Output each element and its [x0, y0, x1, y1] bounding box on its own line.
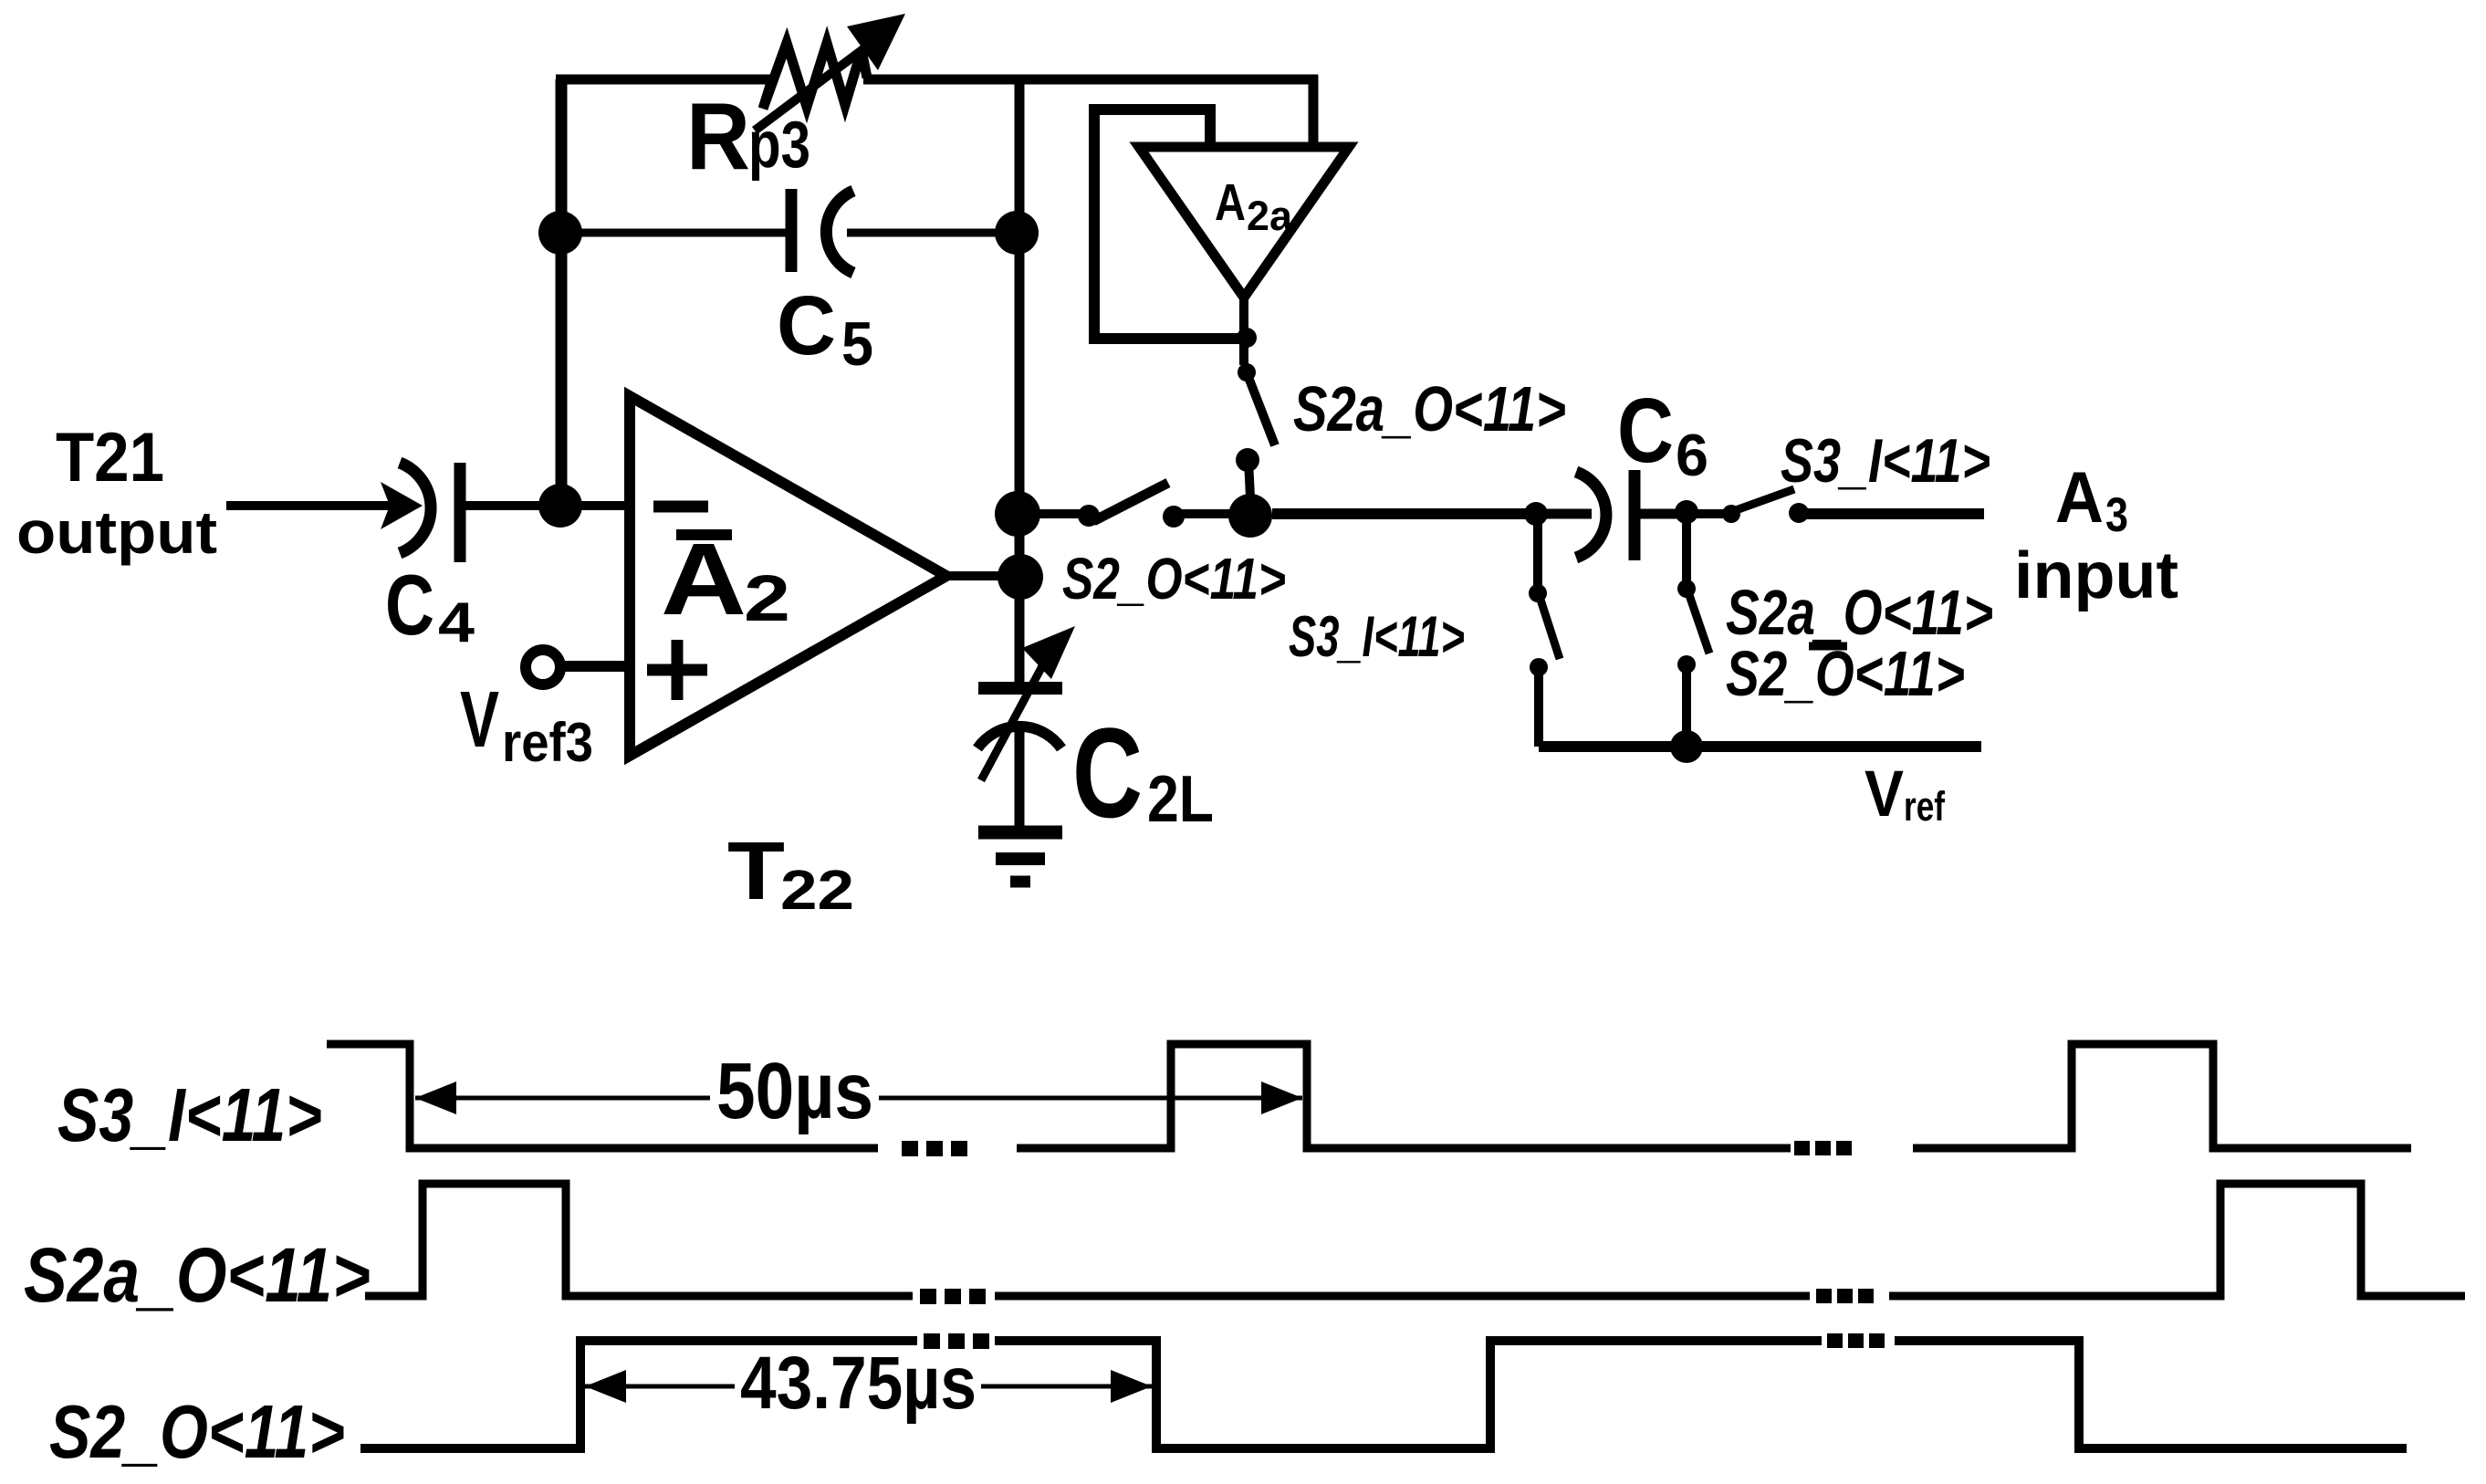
svg-text:ref3: ref3 — [502, 712, 593, 773]
label Rp3 — [686, 84, 810, 190]
label S2_O<11> timing row3 — [49, 1389, 345, 1474]
label T22 — [727, 826, 854, 921]
wire to A3 input — [1799, 508, 1984, 519]
svg-text:S3_I<11>: S3_I<11> — [1781, 426, 1990, 496]
terminal Vref3 — [526, 650, 560, 685]
capacitor C6 — [1576, 470, 1635, 560]
label C2L — [1072, 701, 1214, 844]
dots row1 first — [902, 1141, 967, 1156]
buffer A2a — [1139, 147, 1349, 298]
svg-text:C: C — [777, 279, 836, 372]
wire A2a input drop — [1309, 75, 1319, 147]
wire Vref3 to op-amp noninverting input — [560, 661, 632, 672]
dots row3 second — [1827, 1333, 1885, 1348]
arrow C2L wiper — [981, 626, 1075, 780]
svg-text:ref: ref — [1904, 783, 1946, 830]
wire C6 right branch down — [1682, 514, 1691, 581]
svg-text:V: V — [460, 675, 499, 764]
svg-text:R: R — [686, 84, 750, 190]
label S3_I<11> timing row1 — [57, 1072, 322, 1157]
wire to C6 plate — [1536, 509, 1592, 519]
wire node to C2L — [1015, 577, 1025, 685]
node C6 left — [1524, 502, 1548, 526]
label S2a_O<11> right column — [1726, 577, 1993, 648]
ground — [978, 832, 1062, 882]
label S2_O<11> — [1062, 546, 1286, 611]
svg-text:A: A — [2055, 456, 2104, 538]
dots row1 second — [1794, 1141, 1852, 1155]
svg-text:6: 6 — [1676, 422, 1708, 488]
svg-text:input: input — [2014, 539, 2178, 612]
arrow 43.75us — [585, 1370, 1152, 1403]
dots row3 first — [924, 1333, 989, 1349]
node Vref rail junction — [1670, 730, 1703, 763]
resistor Rp3 zigzag — [763, 43, 867, 109]
label S3_I<11> top — [1781, 426, 1990, 496]
svg-text:S3_I<11>: S3_I<11> — [57, 1072, 322, 1157]
svg-text:C: C — [1617, 380, 1674, 482]
wire Vref rail — [1539, 741, 1981, 752]
waveform S2a_O row2 — [365, 1184, 2465, 1296]
dots row2 second — [1816, 1289, 1874, 1303]
wire left vertical from inverting node to top rail — [556, 79, 568, 506]
node C5 left — [538, 211, 582, 255]
label S2_O<11> right column with overline — [1726, 638, 1965, 709]
svg-text:S2_O<11>: S2_O<11> — [1062, 546, 1286, 611]
svg-text:4: 4 — [438, 591, 475, 654]
switch S3_I<11> — [1722, 489, 1809, 523]
svg-text:5: 5 — [841, 309, 873, 379]
node A2a feedback junction — [1237, 328, 1257, 348]
svg-text:S2a_O<11>: S2a_O<11> — [1293, 373, 1566, 444]
svg-text:2L: 2L — [1147, 763, 1214, 836]
node S2a junction — [1228, 494, 1272, 538]
wire op-amp output to node — [946, 571, 1020, 580]
resistor Rp3 wiper arrow — [755, 14, 905, 131]
arrow 50us — [415, 1082, 1302, 1114]
wire node to switch S3_I — [1687, 509, 1725, 518]
label S3_I<11> left — [1289, 605, 1465, 669]
label C6 — [1617, 380, 1708, 488]
svg-text:2: 2 — [744, 563, 790, 635]
wire C4 to node — [465, 501, 560, 510]
svg-text:43.75µs: 43.75µs — [740, 1342, 977, 1425]
svg-text:T: T — [727, 826, 785, 917]
svg-text:C: C — [385, 557, 434, 653]
node main signal — [995, 491, 1040, 537]
switch S2a_O<11> — [1236, 363, 1275, 497]
node C6 right — [1675, 500, 1698, 524]
wire right branch to rail — [1682, 664, 1691, 747]
wire top rail right segment — [863, 75, 1318, 85]
label 50us — [716, 1047, 873, 1135]
capacitor C2L — [977, 688, 1062, 832]
label S2a_O<11> — [1293, 373, 1566, 444]
label Vref — [1864, 758, 1946, 831]
waveform S2_O row3 — [360, 1341, 2407, 1448]
label S2a_O<11> timing row2 — [24, 1232, 371, 1318]
label A3 — [2055, 456, 2128, 542]
wire node to op-amp inverting input — [560, 501, 632, 510]
wire C6 to node — [1635, 509, 1679, 519]
svg-text:A: A — [1215, 173, 1246, 232]
arrowhead T21 input — [381, 482, 423, 529]
wire main node to switch S2_O — [1018, 509, 1081, 518]
node inverting input — [538, 484, 582, 528]
svg-text:p3: p3 — [748, 109, 810, 182]
label Vref3 — [460, 675, 593, 773]
svg-text:3: 3 — [2105, 488, 2128, 542]
label T21 output — [16, 419, 217, 566]
wire left branch to rail — [1534, 667, 1543, 747]
wire T21 input — [226, 501, 392, 510]
wire switch to big node — [1174, 509, 1250, 518]
svg-text:T21: T21 — [56, 419, 164, 496]
wire top rail left segment — [556, 75, 772, 85]
svg-text:S2_O<11>: S2_O<11> — [49, 1389, 345, 1474]
op-amp A2 — [630, 396, 946, 756]
node op-amp output — [998, 554, 1043, 600]
waveform S3_I row1 — [327, 1044, 2411, 1148]
label C4 — [385, 557, 475, 654]
wire right vertical rail-to-output-node — [1015, 79, 1025, 584]
node C5 right — [995, 211, 1039, 255]
wire node to C6 — [1272, 508, 1526, 519]
svg-text:2a: 2a — [1247, 193, 1293, 239]
svg-text:C: C — [1072, 701, 1143, 844]
label A2 — [661, 522, 790, 636]
svg-text:50µs: 50µs — [716, 1047, 873, 1135]
svg-text:22: 22 — [780, 859, 854, 921]
label input — [2014, 539, 2178, 612]
dots row2 first — [920, 1289, 986, 1304]
switch S2_O<11> — [1078, 483, 1185, 528]
switch S2a_O/S2_O right branch — [1677, 580, 1709, 674]
label C5 — [777, 279, 873, 379]
wire node to C5 — [561, 229, 791, 237]
label A2a — [1215, 173, 1293, 239]
svg-text:S2a_O<11>: S2a_O<11> — [24, 1232, 371, 1318]
label 43.75us — [740, 1342, 977, 1425]
wire C5 to node — [847, 229, 1017, 237]
svg-text:V: V — [1864, 758, 1904, 831]
switch S3_I<11> left branch — [1529, 584, 1560, 676]
wire A2a output stem — [1239, 298, 1248, 365]
svg-text:S3_I<11>: S3_I<11> — [1289, 605, 1465, 669]
svg-text:output: output — [16, 498, 217, 566]
capacitor C4 — [400, 463, 460, 562]
capacitor C5 — [791, 189, 853, 273]
wire C6 left branch down — [1533, 514, 1542, 586]
wire A2a feedback loop — [1094, 110, 1247, 339]
